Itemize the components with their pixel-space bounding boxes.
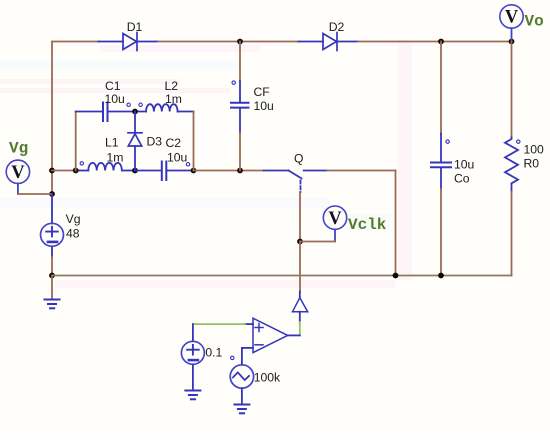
svg-text:Vclk: Vclk: [348, 216, 387, 234]
svg-text:0.1: 0.1: [205, 346, 222, 360]
ground 0.1: [185, 391, 200, 400]
svg-text:Vg: Vg: [9, 140, 28, 158]
inductor L1: [80, 163, 136, 171]
wire switch control drop: [299, 192, 301, 242]
ground 100k: [234, 405, 249, 414]
wire top rail middle: [158, 41, 299, 43]
svg-text:V: V: [328, 209, 342, 229]
svg-text:Vo: Vo: [525, 13, 544, 31]
wire top rail left segment: [52, 41, 99, 43]
wire middle rail to CF node: [194, 170, 264, 172]
svg-text:100: 100: [524, 143, 545, 157]
node Vg meter junction: [49, 191, 55, 197]
wire control crossing rail: [299, 242, 301, 292]
svg-text:Co: Co: [454, 172, 470, 186]
node rail Co junction: [438, 273, 444, 279]
marker dot C2: [186, 163, 189, 166]
svg-text:V: V: [505, 8, 519, 28]
node CF bottom junction: [237, 168, 243, 174]
node D3 bottom junction: [132, 168, 138, 174]
wire left column: [51, 42, 53, 171]
node top CF junction: [237, 39, 243, 45]
wire gate output green: [299, 322, 301, 335]
svg-text:R0: R0: [524, 157, 540, 171]
resistor R0: [511, 42, 513, 138]
capacitor CF: [239, 42, 241, 81]
svg-text:C1: C1: [105, 79, 121, 93]
marker dot CF: [232, 81, 235, 84]
node C1-L2-D3 junction: [132, 109, 138, 115]
svg-text:CF: CF: [254, 85, 270, 99]
marker dot L1: [80, 162, 83, 165]
node rail right-drop junction: [393, 273, 399, 279]
svg-text:Q: Q: [294, 152, 303, 166]
svg-text:100k: 100k: [254, 371, 281, 385]
svg-text:1m: 1m: [107, 151, 124, 165]
diode D3: [128, 112, 142, 171]
wire switch right to corner: [327, 170, 396, 172]
capacitor C2: [135, 162, 194, 181]
svg-text:1m: 1m: [165, 92, 182, 106]
capacitor C1: [76, 103, 146, 122]
svg-text:10u: 10u: [454, 158, 474, 172]
svg-text:V: V: [11, 163, 25, 183]
wire right drop: [395, 171, 397, 276]
diode D1: [99, 33, 159, 51]
marker dot C1: [127, 103, 130, 106]
voltmeter Vg: [6, 160, 29, 194]
wire bottom rail: [52, 275, 512, 277]
source 100k: [230, 348, 253, 405]
marker dot 100k: [231, 356, 234, 359]
buffer gate: [293, 292, 308, 323]
source 0.1: [181, 324, 204, 390]
wire top rail right segment: [358, 41, 512, 43]
C1 loop right vertical wire: [193, 112, 195, 171]
node loop-right junction: [191, 168, 197, 174]
svg-text:10u: 10u: [167, 151, 187, 165]
op-amp U1: [242, 318, 300, 352]
svg-text:D1: D1: [127, 20, 143, 34]
svg-text:10u: 10u: [105, 92, 125, 106]
wire middle rail: [52, 170, 80, 172]
svg-text:C2: C2: [166, 136, 182, 150]
svg-text:L1: L1: [105, 136, 119, 150]
wire op-amp plus input green: [193, 323, 245, 325]
node Vclk junction: [297, 239, 303, 245]
switch Q: [264, 171, 327, 193]
node ground junction: [49, 273, 55, 279]
svg-text:10u: 10u: [254, 99, 274, 113]
marker dot L2: [139, 103, 142, 106]
diode D2: [299, 33, 359, 51]
svg-text:D2: D2: [329, 20, 345, 34]
C1 loop left vertical wire: [75, 112, 77, 171]
node top Vo junction: [509, 39, 515, 45]
marker dot R0: [517, 140, 520, 143]
voltmeter Vclk: [323, 206, 346, 242]
wire voltmeter Vg to node: [18, 193, 52, 195]
svg-text:Vg: Vg: [66, 212, 81, 226]
inductor L2: [146, 104, 194, 111]
svg-text:D3: D3: [147, 135, 163, 149]
marker dot Co: [446, 140, 449, 143]
svg-text:L2: L2: [165, 79, 179, 93]
ground main: [51, 276, 53, 300]
voltmeter Vo: [500, 5, 523, 42]
capacitor Co: [440, 42, 442, 134]
node left mid junction: [49, 168, 55, 174]
node loop-left junction: [73, 168, 79, 174]
svg-text:48: 48: [66, 227, 80, 241]
node top Co junction: [438, 39, 444, 45]
source Vg 48: [41, 194, 64, 257]
artifact streaks: [0, 40, 412, 288]
